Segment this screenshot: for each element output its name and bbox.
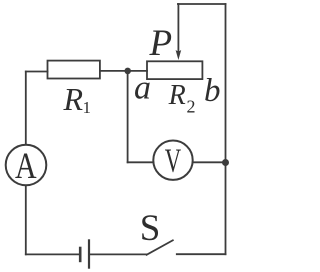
- ammeter A1 circle: [6, 145, 47, 186]
- wire right vertical: [225, 4, 227, 254]
- wire left vertical below ammeter: [25, 185, 27, 254]
- wire to voltmeter left: [128, 161, 154, 163]
- wire switch to bottom-right corner: [177, 253, 226, 255]
- wire R1 to node a: [100, 70, 147, 72]
- svg-text:2: 2: [187, 97, 196, 117]
- wire bottom-left to battery: [26, 253, 79, 255]
- svg-text:A: A: [15, 146, 37, 187]
- battery cell long plate (positive): [88, 239, 90, 268]
- svg-text:a: a: [134, 70, 151, 107]
- wire voltmeter right to junction: [193, 161, 226, 163]
- switch S lever: [147, 240, 173, 255]
- wiper arrowhead: [176, 50, 182, 60]
- svg-text:P: P: [149, 23, 173, 64]
- wire node a vertical down: [127, 71, 129, 162]
- svg-text:R: R: [168, 80, 186, 111]
- battery cell short plate (negative): [79, 247, 82, 263]
- svg-text:R: R: [63, 81, 84, 117]
- node a junction dot: [124, 68, 131, 75]
- wire top (wiper feed): [178, 3, 226, 5]
- svg-text:S: S: [140, 208, 161, 249]
- wire top-left horizontal: [26, 71, 48, 73]
- svg-text:b: b: [204, 73, 221, 109]
- voltmeter V1 circle: [153, 141, 192, 180]
- svg-text:V: V: [165, 143, 182, 180]
- potentiometer R2: [147, 61, 202, 79]
- wiper arrow stem: [177, 4, 179, 52]
- wire battery to switch: [90, 253, 147, 255]
- wire left vertical (corner to ammeter): [25, 72, 27, 145]
- junction dot right (voltmeter tap): [222, 159, 229, 166]
- resistor R1: [48, 61, 100, 79]
- svg-text:1: 1: [83, 98, 92, 117]
